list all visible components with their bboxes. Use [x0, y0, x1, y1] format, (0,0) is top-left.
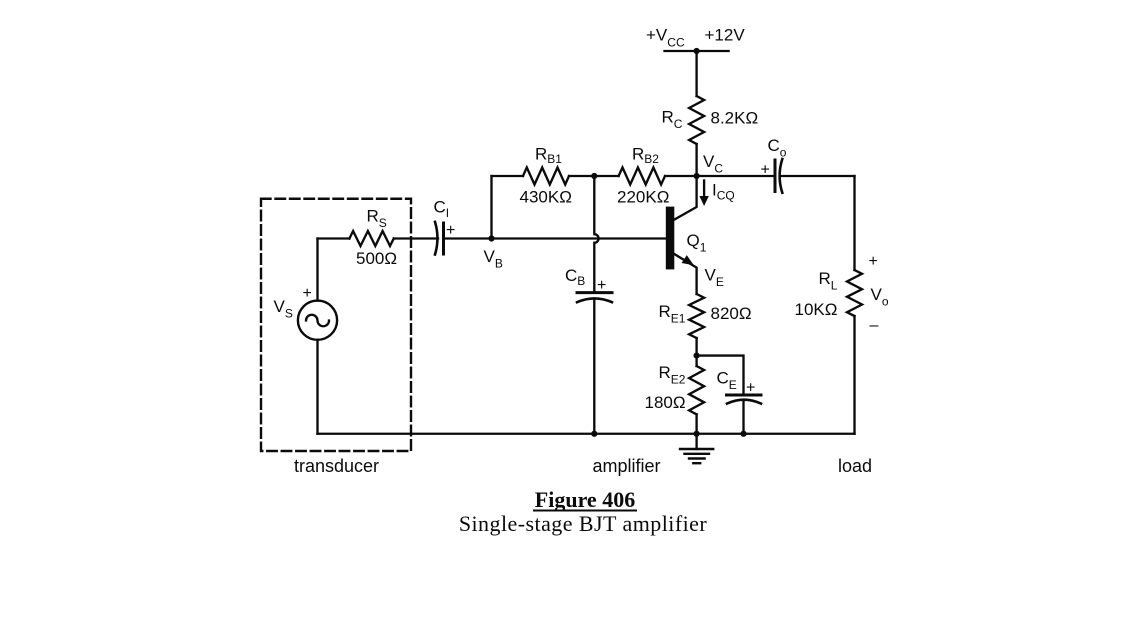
node Vc dot — [694, 173, 700, 179]
wire base row CI to transistor — [444, 237, 666, 239]
label transducer — [294, 456, 379, 476]
source VS circle — [298, 301, 337, 340]
label Q1 — [687, 231, 707, 255]
svg-text:10KΩ: 10KΩ — [795, 300, 838, 319]
label CB — [565, 266, 585, 288]
transistor Q1 emitter lead — [674, 254, 697, 294]
svg-text:load: load — [838, 456, 872, 476]
capacitor CE plate curved — [727, 400, 761, 404]
svg-text:+: + — [761, 162, 770, 179]
label Icq — [712, 181, 735, 203]
label 820ohm — [711, 304, 752, 323]
svg-text:–: – — [870, 317, 879, 334]
label RE2 — [659, 363, 686, 387]
resistor RE2 — [689, 366, 704, 414]
capacitor CI plate curved — [435, 222, 437, 255]
wire VS top riser — [316, 239, 318, 301]
svg-text:220KΩ: 220KΩ — [617, 188, 669, 207]
resistor RB1 — [523, 168, 569, 185]
label CI — [434, 198, 450, 221]
node RB1/RB2 junction dot — [591, 173, 597, 179]
wire RL to bottom rail — [853, 316, 855, 434]
node emitter junction dot — [694, 353, 700, 359]
label + of VS — [303, 285, 312, 302]
capacitor CB plate straight — [577, 291, 612, 294]
label + of CI — [446, 222, 455, 239]
node VB dot — [488, 235, 494, 241]
label minus of Vo — [870, 317, 879, 334]
svg-text:+: + — [597, 277, 606, 294]
label CE — [717, 369, 737, 393]
label + of CB — [597, 277, 606, 294]
label Co — [768, 136, 787, 160]
node Vcc junction dot — [694, 48, 700, 54]
label 8.2Kohm — [711, 109, 759, 128]
svg-text:+: + — [746, 380, 755, 397]
svg-text:transducer: transducer — [294, 456, 379, 476]
svg-text:180Ω: 180Ω — [645, 393, 686, 412]
capacitor CE plate straight — [727, 394, 762, 397]
label Vo — [871, 285, 889, 309]
label +12V — [705, 26, 746, 45]
svg-text:430KΩ: 430KΩ — [520, 188, 572, 207]
resistor RL — [847, 270, 862, 316]
label VS — [274, 297, 293, 321]
wire Co to load corner — [781, 175, 855, 177]
resistor RE1 — [689, 294, 704, 338]
label 220Kohm — [617, 188, 669, 207]
svg-text:8.2KΩ: 8.2KΩ — [711, 109, 759, 128]
label RB1 — [535, 145, 562, 167]
label RB2 — [632, 145, 659, 167]
node rail-CE dot — [740, 431, 746, 437]
wire junction to CE branch — [697, 356, 744, 395]
label Vc — [703, 152, 723, 176]
capacitor Co plate straight — [774, 160, 777, 192]
label 10Kohm — [795, 300, 838, 319]
svg-text:amplifier: amplifier — [592, 456, 660, 476]
wire VS bottom to rail — [316, 340, 318, 434]
wire VS top to RS — [318, 237, 350, 239]
resistor RC — [689, 96, 704, 144]
capacitor CI plate straight — [442, 223, 445, 254]
wire VB vertical riser — [490, 176, 492, 239]
label load — [838, 456, 872, 476]
capacitor CB plate curved — [577, 298, 612, 302]
label amplifier — [592, 456, 660, 476]
wire RE2 to bottom rail — [695, 414, 697, 433]
label + of CE — [746, 380, 755, 397]
transistor Q1 collector lead — [674, 176, 697, 220]
label + of Co — [761, 162, 770, 179]
transistor Q1 emitter arrow — [682, 255, 694, 265]
wire load corner down to RL — [853, 176, 855, 270]
svg-text:500Ω: 500Ω — [356, 249, 397, 268]
wire junction column with hop over base wire — [594, 176, 598, 292]
svg-text:820Ω: 820Ω — [711, 304, 752, 323]
label RC — [662, 108, 683, 132]
transducer dashed box — [261, 199, 411, 451]
wire CE to bottom rail — [742, 400, 744, 434]
label VE — [705, 266, 724, 290]
wire CB to bottom rail — [593, 299, 595, 434]
svg-text:+: + — [869, 253, 878, 270]
wire RE1 to emitter junction — [695, 338, 697, 366]
svg-text:Single-stage BJT amplifier: Single-stage BJT amplifier — [459, 511, 708, 536]
wire RB1 to junction — [569, 175, 619, 177]
wire Rc to Vc — [695, 144, 697, 176]
node rail-CB dot — [591, 431, 597, 437]
label VB — [484, 247, 503, 271]
capacitor Co plate curved — [780, 159, 783, 193]
wire Vcc to Rc — [695, 51, 697, 96]
label + of Vo — [869, 253, 878, 270]
svg-text:+: + — [446, 222, 455, 239]
resistor RB2 — [619, 168, 665, 185]
transistor Q1 base bar — [666, 207, 675, 270]
source VS sine — [306, 315, 329, 327]
wire top row VB corner to RB1 — [492, 175, 524, 177]
label RL — [819, 269, 838, 293]
label 430Kohm — [520, 188, 572, 207]
label 500ohm — [356, 249, 397, 268]
label RS — [367, 207, 387, 231]
svg-text:+12V: +12V — [705, 26, 746, 45]
label 180ohm — [645, 393, 686, 412]
label +Vcc — [646, 26, 685, 50]
caption underline — [533, 510, 637, 512]
node rail-ground dot — [694, 431, 700, 437]
wire RS to CI — [394, 237, 438, 239]
svg-text:+: + — [303, 285, 312, 302]
supply rail +Vcc — [665, 50, 729, 52]
wire RB2 to Vc node — [665, 175, 775, 177]
ground — [680, 434, 713, 463]
resistor RS — [349, 231, 393, 246]
bottom rail wire — [318, 433, 855, 435]
current arrow Icq — [699, 181, 708, 207]
svg-text:Figure 406: Figure 406 — [535, 487, 635, 512]
label RE1 — [659, 302, 686, 326]
